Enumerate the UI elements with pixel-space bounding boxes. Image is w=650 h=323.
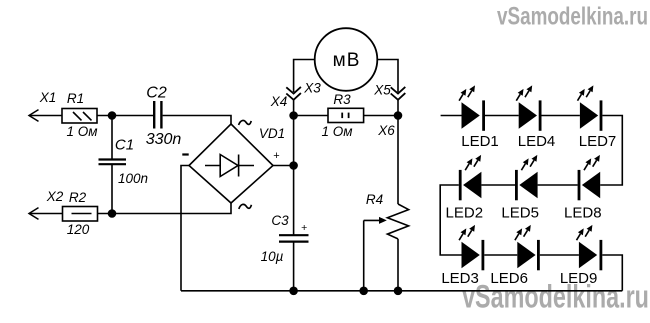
wire node E down to C3 <box>293 166 295 236</box>
LED LED3 <box>459 225 484 270</box>
wire LED row1 start <box>441 115 462 117</box>
wire node C down to bridge plus node <box>293 116 295 166</box>
svg-text:X5: X5 <box>373 83 391 98</box>
wire row3 to bottom rail <box>602 255 622 291</box>
svg-text:LED5: LED5 <box>501 205 539 222</box>
svg-text:vSamodelkina.ru: vSamodelkina.ru <box>497 2 648 30</box>
svg-text:R4: R4 <box>366 192 383 207</box>
svg-text:LED2: LED2 <box>446 205 484 222</box>
svg-text:LED1: LED1 <box>461 133 499 150</box>
wire bridge plus to node E <box>273 165 294 167</box>
wire C2 to bridge top <box>163 116 231 125</box>
LED LED4 <box>516 85 541 130</box>
svg-text:LED6: LED6 <box>490 270 528 287</box>
bridge ac mark top <box>239 120 252 125</box>
wire row1 to row2 right side <box>600 116 622 186</box>
svg-text:1 Ом: 1 Ом <box>321 124 352 139</box>
LED LED5 <box>515 155 538 200</box>
svg-text:X3: X3 <box>303 81 321 96</box>
connector X5 arrow <box>391 87 406 94</box>
LED LED1 <box>459 85 485 130</box>
svg-text:330n: 330n <box>146 131 182 148</box>
svg-text:VD1: VD1 <box>259 126 285 141</box>
LED LED9 <box>577 225 603 270</box>
wire node D down to R4 <box>397 116 399 205</box>
svg-text:X4: X4 <box>270 94 288 109</box>
svg-text:LED4: LED4 <box>518 133 556 150</box>
wire X4 fork to node C <box>293 100 295 116</box>
LED LED7 <box>578 85 603 130</box>
svg-text:10µ: 10µ <box>261 249 284 264</box>
svg-text:LED8: LED8 <box>564 205 602 222</box>
wire LED8 to LED5 <box>538 184 578 186</box>
wire R1 to node A and C2 <box>97 115 153 117</box>
node B junction dot (R2/C1) <box>108 209 117 218</box>
wire X6 fork to node D <box>397 100 399 116</box>
wire bottom rail <box>181 290 622 292</box>
svg-text:C2: C2 <box>146 85 167 102</box>
potentiometer R4 wiper arrow <box>364 217 387 291</box>
resistor R2 <box>63 207 98 222</box>
connector X3 arrow <box>286 87 301 94</box>
capacitor C3 polarized <box>279 235 309 241</box>
LED LED2 <box>459 155 482 200</box>
wire meter left lead <box>294 60 315 93</box>
svg-text:C1: C1 <box>115 137 134 154</box>
svg-text:1 Ом: 1 Ом <box>66 124 97 139</box>
connector X1 arrow lead <box>29 110 62 122</box>
svg-text:X6: X6 <box>377 123 395 138</box>
wire LED5 to LED2 <box>481 184 515 186</box>
node G junction dot (R4 bottom/rail) <box>394 287 403 296</box>
wire LED6 to LED9 <box>540 254 579 256</box>
svg-text:120: 120 <box>67 222 90 237</box>
bridge rectifier VD1 <box>189 124 273 203</box>
wire R2 to bridge bottom <box>98 203 232 214</box>
wire row2 to row3 left side <box>440 185 461 255</box>
svg-text:100n: 100n <box>118 171 148 186</box>
wire R3 to node D <box>364 115 398 117</box>
svg-text:мВ: мВ <box>333 50 361 71</box>
connector X6 fork <box>391 93 406 100</box>
node A junction dot (R1/C1/C2) <box>108 111 117 120</box>
LED LED8 <box>578 155 601 200</box>
connector X2 arrow lead <box>29 208 63 220</box>
wire R4 to bottom rail <box>397 239 399 291</box>
capacitor C1 <box>99 116 127 214</box>
svg-text:+: + <box>273 150 279 162</box>
node F junction dot (C3/bottom rail) <box>289 287 298 296</box>
resistor R3 <box>328 108 364 122</box>
wire node C to R3 <box>294 115 328 117</box>
svg-text:X1: X1 <box>39 90 57 105</box>
node C junction dot (X4/R3/bridge plus line) <box>289 111 298 120</box>
LED LED6 <box>515 225 540 270</box>
svg-text:+: + <box>301 222 307 234</box>
node D junction dot (X6/R3/R4) <box>394 111 403 120</box>
wire meter right lead <box>377 60 398 93</box>
svg-text:C3: C3 <box>271 213 289 228</box>
capacitor C2 <box>154 101 161 129</box>
wire C3 to bottom rail <box>293 242 295 291</box>
wire LED3 to LED6 <box>484 254 517 256</box>
potentiometer R4 zigzag <box>387 204 408 239</box>
connector X4 fork <box>286 93 301 100</box>
svg-text:LED3: LED3 <box>441 270 479 287</box>
bridge minus mark <box>182 153 188 155</box>
node H junction dot (wiper/rail) <box>359 287 368 296</box>
svg-text:R1: R1 <box>67 91 84 106</box>
svg-text:LED7: LED7 <box>579 133 617 150</box>
node E junction dot (bridge plus/C3) <box>289 161 298 170</box>
resistor R1 <box>62 109 97 124</box>
svg-text:LED9: LED9 <box>560 270 598 287</box>
wire LED1 to LED4 <box>485 115 519 117</box>
svg-text:X2: X2 <box>46 189 64 204</box>
svg-text:R3: R3 <box>333 92 351 107</box>
wire LED4 to LED7 <box>542 115 580 117</box>
svg-text:R2: R2 <box>69 190 87 205</box>
millivoltmeter PV1 <box>315 28 378 91</box>
bridge ac mark bottom <box>239 204 252 209</box>
wire bridge minus to left vertical <box>181 166 189 291</box>
